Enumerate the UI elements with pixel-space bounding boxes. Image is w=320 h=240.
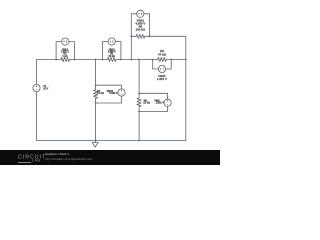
svg-text:10 kΩ: 10 kΩ xyxy=(109,56,115,58)
svg-text:1.610 V: 1.610 V xyxy=(157,77,167,81)
svg-text:1.818 V: 1.818 V xyxy=(156,102,165,105)
svg-text:10 kΩ: 10 kΩ xyxy=(97,92,104,95)
svg-text:12 kΩ: 12 kΩ xyxy=(143,102,150,105)
svg-text:10 V: 10 V xyxy=(43,87,48,90)
svg-text:100 kΩ: 100 kΩ xyxy=(136,27,146,31)
svg-text:4.369 V: 4.369 V xyxy=(109,92,118,95)
svg-text:47 kΩ: 47 kΩ xyxy=(158,52,167,56)
svg-text:1 kΩ: 1 kΩ xyxy=(62,56,67,58)
